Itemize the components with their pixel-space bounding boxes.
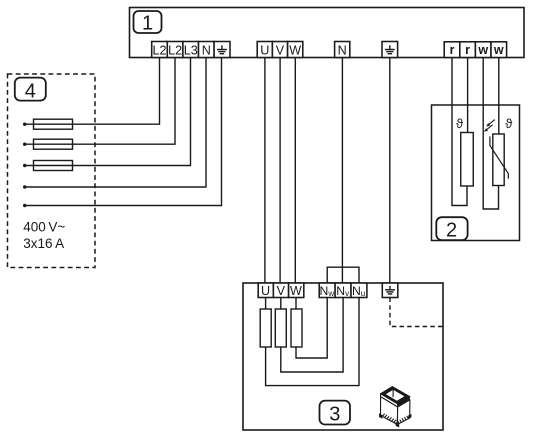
wire L3 from fuse F3 to terminal L3 xyxy=(25,58,191,166)
node supply L2a xyxy=(23,123,26,126)
svg-text:r: r xyxy=(450,43,455,57)
fuse F3 xyxy=(34,161,73,171)
wire r2 box1 to sensor B1 top xyxy=(467,58,469,133)
heating element R1 xyxy=(260,309,271,347)
terminal PE (box 3, earth symbol) xyxy=(382,283,398,298)
label 2 xyxy=(436,217,467,241)
sensor unit box 2 xyxy=(432,105,520,241)
svg-text:V: V xyxy=(276,44,285,58)
label 3 xyxy=(320,401,351,426)
svg-text:U: U xyxy=(260,44,269,58)
svg-text:w: w xyxy=(493,43,504,57)
svg-text:L2: L2 xyxy=(152,44,166,58)
svg-text:V: V xyxy=(277,284,286,298)
svg-text:3x16 A: 3x16 A xyxy=(23,236,64,251)
heating element R2 xyxy=(275,309,286,347)
terminal Nv (box 3) xyxy=(335,283,351,298)
wire V box1 to box3 xyxy=(279,58,281,284)
wire V terminal to element R2 xyxy=(280,298,282,310)
svg-text:ϑ: ϑ xyxy=(505,116,513,131)
terminal N (box 1 left) xyxy=(199,42,215,58)
wire PE box1 to box3 xyxy=(389,58,391,284)
svg-text:L2: L2 xyxy=(168,44,182,58)
terminal W (box 3) xyxy=(289,283,304,298)
heater icon (isometric open box) xyxy=(379,387,411,428)
svg-text:L3: L3 xyxy=(184,44,198,58)
terminal L3 (box 1) xyxy=(183,42,199,58)
svg-text:3: 3 xyxy=(329,403,340,425)
wire element R3 to Nw xyxy=(296,298,327,359)
terminal V (box 3) xyxy=(273,283,288,298)
wire L2a from fuse F1 to terminal L2a xyxy=(25,58,160,125)
terminal r1 (box 1) xyxy=(444,42,460,58)
distribution box 4 (dashed) xyxy=(8,74,96,268)
wire W terminal to element R3 xyxy=(295,298,297,310)
wire r1 box1 to sensor B1 bottom xyxy=(452,58,467,206)
wire N supply to terminal N xyxy=(25,58,206,188)
svg-text:r: r xyxy=(465,43,470,57)
terminal w2 (box 1) xyxy=(491,42,507,58)
node supply L2b xyxy=(23,143,26,146)
temperature sensor B1 xyxy=(461,133,474,187)
terminal Nw (box 3) xyxy=(319,283,335,298)
terminal N (box 1 centre) xyxy=(335,42,350,58)
label 4 xyxy=(15,78,46,103)
svg-text:1: 1 xyxy=(142,13,153,35)
wire element R1 to Nu xyxy=(266,298,359,386)
N distribution bracket xyxy=(327,267,359,283)
terminal L2b (box 1) xyxy=(167,42,183,58)
wire U terminal to element R1 xyxy=(265,298,267,310)
svg-text:W: W xyxy=(289,44,301,58)
svg-text:4: 4 xyxy=(25,80,36,102)
wire element R2 to Nv xyxy=(281,298,343,373)
svg-text:400 V~: 400 V~ xyxy=(23,220,65,235)
wire W box1 to box3 xyxy=(294,58,296,284)
fuse F1 xyxy=(34,119,73,129)
terminal PE (box 1 left, earth symbol) xyxy=(214,42,230,58)
fuse F2 xyxy=(34,139,73,149)
terminal U (box 3) xyxy=(258,283,273,298)
terminal U (box 1) xyxy=(257,42,272,58)
wire w1 box1 to limiter bottom xyxy=(483,58,498,210)
heater box 3 xyxy=(243,283,443,430)
terminal W (box 1) xyxy=(288,42,303,58)
terminal L2a (box 1) xyxy=(152,42,168,58)
wire U box1 to box3 xyxy=(264,58,266,284)
terminal w1 (box 1) xyxy=(475,42,491,58)
label 1 xyxy=(134,11,162,35)
thermal cutout diagonal (variable symbol) xyxy=(490,136,508,178)
thermal cutout F1 (sensor body) xyxy=(493,134,504,186)
terminal PE (box 1 centre, earth symbol) xyxy=(382,42,398,58)
svg-text:N: N xyxy=(202,44,211,58)
svg-text:U: U xyxy=(261,284,270,298)
node supply N xyxy=(23,185,26,188)
terminal r2 (box 1) xyxy=(460,42,476,58)
wire w2 box1 to limiter top xyxy=(498,58,500,135)
node supply PE xyxy=(23,204,26,207)
wire N box1 to N bracket and Nv xyxy=(341,58,343,284)
heating element R3 xyxy=(291,309,302,347)
control unit box 1 xyxy=(130,8,525,58)
svg-text:ϑ: ϑ xyxy=(456,116,464,131)
terminal V (box 1) xyxy=(272,42,287,58)
wire PE supply to terminal PE xyxy=(25,58,222,206)
svg-text:W: W xyxy=(290,284,302,298)
dashed PE link to box 3 frame xyxy=(390,298,443,327)
svg-text:2: 2 xyxy=(446,219,457,241)
influence arrows xyxy=(484,120,495,132)
node supply L3 xyxy=(23,164,26,167)
svg-text:w: w xyxy=(477,43,488,57)
terminal Nu (box 3) xyxy=(351,283,367,298)
wire L2b from fuse F2 to terminal L2b xyxy=(25,58,175,145)
svg-text:N: N xyxy=(338,44,347,58)
